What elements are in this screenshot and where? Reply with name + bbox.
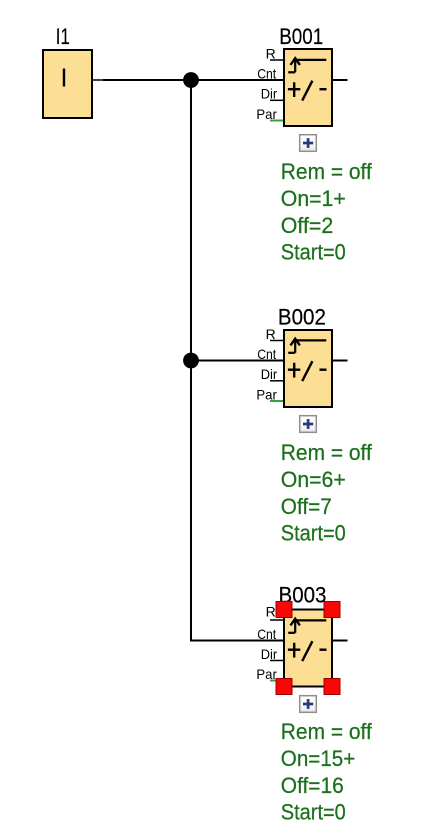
svg-text:I: I [60,62,67,92]
wire junction B to B002 Cnt [191,360,284,362]
counter block B001 [284,49,332,126]
svg-text:Cnt: Cnt [257,626,276,642]
B003 expand button [300,696,317,713]
svg-text:Dir: Dir [261,86,278,102]
B003 selection handle top-right [324,602,340,618]
B001 +/- symbol [288,81,327,101]
counter block B002 [284,330,332,407]
svg-text:R: R [266,603,276,619]
svg-text:Rem = off: Rem = off [281,440,373,465]
B003 selection handle bottom-right [324,679,340,695]
B001 counter icon (clock arrow) [288,58,326,72]
svg-text:On=6+: On=6+ [281,467,346,492]
svg-text:Start=0: Start=0 [281,240,346,265]
svg-text:B002: B002 [278,305,326,330]
svg-text:B001: B001 [279,24,323,49]
svg-text:Par: Par [256,666,277,682]
svg-text:Cnt: Cnt [257,346,276,362]
junction node B [183,353,199,369]
svg-text:Off=2: Off=2 [281,213,334,238]
B003 pin Dir stub [270,660,284,662]
svg-text:Dir: Dir [261,646,278,662]
svg-text:R: R [266,326,276,342]
input block I1 [43,50,92,118]
B003 counter icon (clock arrow) [288,619,326,633]
svg-text:On=15+: On=15+ [281,746,356,771]
B002 +/- symbol [288,361,327,381]
vertical bus wire [190,80,192,642]
svg-text:Rem = off: Rem = off [281,159,373,184]
B001 pin Dir stub [270,99,284,101]
B002 pin R stub [270,340,284,342]
svg-text:Off=7: Off=7 [281,494,332,519]
svg-text:Par: Par [256,106,277,122]
counter block B003 [284,610,332,687]
B003 selection handle top-left [276,602,292,618]
B003 selection handle bottom-left [276,679,292,695]
B002 expand button [300,416,317,433]
svg-text:Off=16: Off=16 [281,773,344,798]
wire I1 output to junction A [92,79,191,81]
wire bus corner to B003 Cnt [190,640,284,642]
B003 pin Par stub (green) [270,680,283,682]
svg-text:I1: I1 [56,24,70,49]
B002 pin Par stub (green) [270,400,283,402]
B002 output stub [332,360,348,362]
B001 expand button [300,135,317,152]
svg-text:Rem = off: Rem = off [281,719,373,744]
wire junction A to B001 Cnt [191,79,284,81]
B001 output stub [332,79,348,81]
B003 +/- symbol [288,641,327,661]
B001 pin Par stub (green) [270,120,283,122]
junction node A [183,72,199,88]
B002 counter icon (clock arrow) [288,339,326,353]
svg-text:Par: Par [256,386,277,402]
B001 pin R stub [270,59,284,61]
B003 pin R stub [270,619,284,621]
svg-text:Cnt: Cnt [257,65,276,81]
svg-text:R: R [266,45,276,61]
B002 pin Dir stub [270,380,284,382]
svg-text:Start=0: Start=0 [281,800,346,825]
svg-text:Start=0: Start=0 [281,521,346,546]
svg-text:On=1+: On=1+ [281,186,346,211]
B003 output stub [332,640,348,642]
svg-text:Dir: Dir [261,366,278,382]
